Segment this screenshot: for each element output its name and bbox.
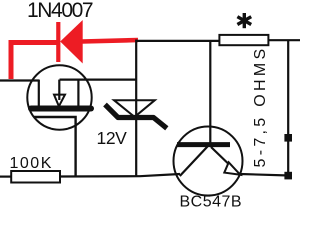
zener D2 triangle [114, 100, 155, 117]
Q2 base bar thick [177, 142, 230, 147]
Q1 gate arrow open triangle [54, 95, 65, 107]
wire bottom rail left edge to resistor [0, 176, 12, 178]
wire bottom rail resistor to Q2 base [60, 174, 180, 177]
wire resistor to right edge [268, 39, 300, 41]
zener D2 cathode Z bar [105, 105, 167, 129]
wire right rail vertical [287, 40, 289, 175]
junction square upper [284, 134, 292, 142]
Q1 MOSFET circle [27, 65, 91, 129]
wire top rail node to resistor [136, 40, 220, 42]
svg-text:5-7,5 OHMS: 5-7,5 OHMS [252, 46, 269, 168]
wire right rail horizontal to emitter [240, 174, 289, 176]
diode D1 1N4007 cathode bar [56, 22, 60, 62]
wire red diode to node [82, 40, 138, 42]
Q1 gate stem [58, 80, 60, 100]
wire input + red vertical and horizontal to diode [11, 43, 57, 80]
Q1 source lead below bar [34, 117, 76, 177]
wire main vertical node to bottom rail [135, 40, 137, 177]
svg-text:1N4007: 1N4007 [27, 0, 93, 22]
Q1 channel bar thick [31, 106, 91, 112]
label asterisk [237, 13, 251, 28]
svg-text:100K: 100K [10, 155, 53, 172]
svg-text:BC547B: BC547B [180, 194, 243, 211]
Q2 emitter shaft diagonal [211, 147, 240, 175]
wire gate rail left [0, 79, 40, 81]
Q2 BC547B circle [174, 127, 243, 196]
wire collector drop [209, 41, 211, 143]
junction square corner [284, 172, 292, 180]
resistor R2 100K body [11, 171, 60, 183]
diode D1 1N4007 triangle [60, 20, 82, 64]
svg-text:12V: 12V [97, 128, 128, 148]
wire gate rail right to node [60, 78, 138, 80]
Q2 left lead diagonal [180, 147, 208, 177]
Q1 right contact vertical [77, 80, 79, 107]
Q1 left contact vertical [38, 80, 40, 107]
resistor R* body [219, 35, 268, 45]
Q2 emitter open arrowhead [224, 162, 240, 175]
